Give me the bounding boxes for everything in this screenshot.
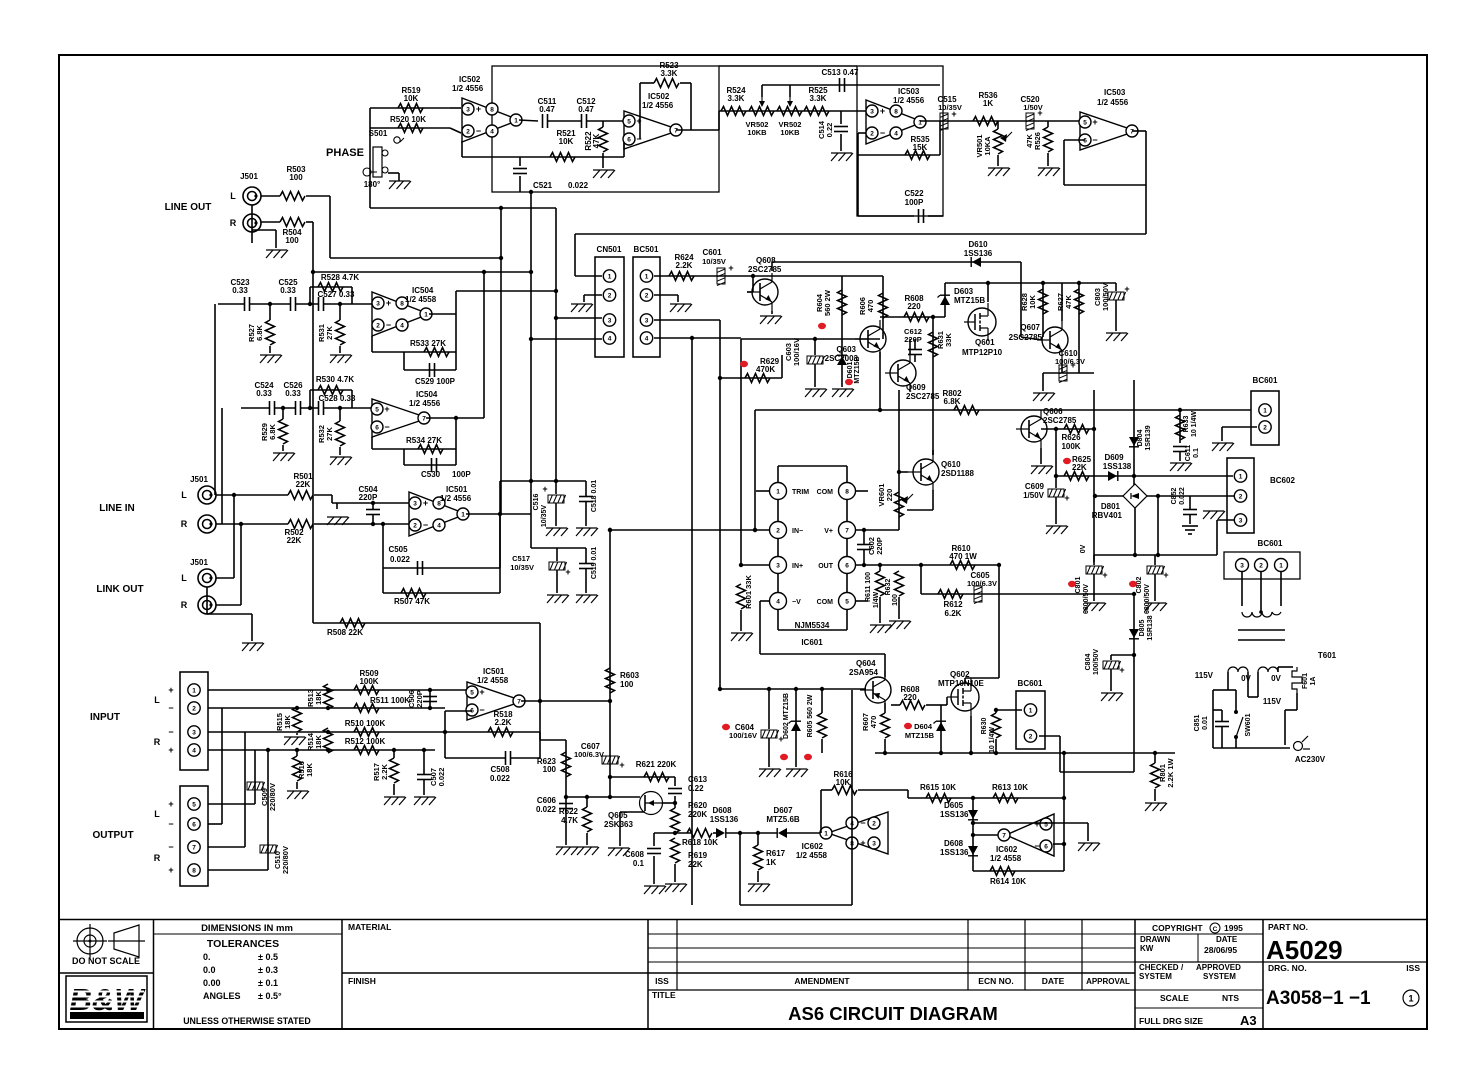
svg-text:470: 470 — [866, 300, 875, 313]
capacitor C514 — [834, 127, 848, 132]
svg-text:27K: 27K — [325, 326, 334, 340]
svg-text:IC503: IC503 — [898, 87, 920, 96]
B&W logo — [66, 976, 147, 1022]
svg-text:R603: R603 — [620, 671, 640, 680]
wire C522 row — [858, 215, 914, 217]
junction lineout R — [529, 270, 533, 274]
label IC601 — [801, 638, 823, 647]
label C522 — [904, 189, 924, 207]
wire C512 to IC502b — [587, 120, 628, 122]
wire Q602 source — [970, 716, 972, 753]
svg-text:IN+: IN+ — [792, 563, 803, 570]
wire bridge left — [1094, 495, 1123, 497]
junction R527 top — [268, 302, 272, 306]
svg-text:47K: 47K — [1064, 295, 1073, 309]
label 0V a — [1241, 674, 1251, 683]
wire Q604 emitter — [884, 654, 886, 677]
svg-text:22K: 22K — [1072, 463, 1087, 472]
label CN501 — [597, 245, 622, 254]
svg-text:220P: 220P — [875, 537, 884, 555]
junction C602 bot — [862, 563, 866, 567]
svg-text:+: + — [565, 567, 570, 577]
wire C517 down — [556, 570, 558, 593]
label C606 — [536, 796, 557, 814]
junction R617 top — [756, 831, 760, 835]
wire bypass2 right down — [351, 390, 353, 408]
wire vertical x1094 — [1093, 390, 1095, 562]
svg-text:−: − — [168, 703, 173, 713]
wire C851 top row — [1213, 709, 1222, 711]
wire sleeve to gnd — [252, 229, 276, 231]
wire R616 to x908 — [858, 789, 908, 791]
wire fb523 right — [680, 82, 691, 84]
wire pin3 row520 — [1217, 519, 1234, 521]
svg-text:± 0.5°: ± 0.5° — [258, 991, 282, 1001]
jack J501 lineout R — [243, 214, 261, 232]
wire CN501 pin2 stub — [584, 294, 602, 296]
resistor R504 — [280, 218, 305, 227]
ground R619 — [665, 884, 687, 892]
svg-text:1SS136: 1SS136 — [940, 848, 969, 857]
wire C803 v — [1115, 283, 1117, 291]
wire R605 v2 — [821, 739, 823, 753]
svg-text:5: 5 — [627, 118, 631, 125]
resistor R501 — [288, 491, 313, 500]
transistor Q604 — [860, 671, 891, 709]
op-amp IC602b — [998, 814, 1054, 856]
wire jack L to R503 — [261, 195, 280, 197]
label R510 — [345, 719, 386, 728]
resistor R612 — [938, 590, 963, 599]
resistor R523 — [654, 79, 679, 88]
wire BC501 pin3 row — [654, 319, 720, 321]
zener diode D604 — [934, 721, 947, 731]
label D603 — [954, 287, 985, 305]
wire C801 v — [1093, 555, 1095, 565]
do not scale label — [72, 956, 140, 966]
wire R531 bottom — [339, 346, 341, 353]
wire Q605 source — [620, 811, 645, 813]
wire C529 row — [404, 369, 456, 371]
label INPUT — [90, 712, 120, 723]
ground C801 — [1084, 603, 1106, 611]
svg-text:Q609: Q609 — [906, 383, 926, 392]
wire C504 bottom — [372, 515, 374, 525]
wire pin2 drop — [858, 132, 866, 134]
svg-text:0.022: 0.022 — [1179, 487, 1186, 505]
label C505 — [388, 545, 410, 564]
polarized capacitor C802 — [1147, 566, 1169, 580]
junction x540 y701 — [538, 699, 542, 703]
label C520 — [1020, 95, 1042, 112]
svg-text:AS6 CIRCUIT DIAGRAM: AS6 CIRCUIT DIAGRAM — [788, 1003, 998, 1024]
svg-text:IC501: IC501 — [483, 667, 505, 676]
svg-text:SW601: SW601 — [1245, 713, 1252, 736]
label C512 — [576, 97, 596, 114]
svg-text:D608: D608 — [944, 839, 964, 848]
svg-text:1: 1 — [1029, 707, 1033, 714]
svg-text:Q606: Q606 — [1043, 407, 1063, 416]
svg-text:R: R — [181, 600, 188, 610]
wire x540 down — [539, 623, 541, 701]
resistor R510 — [354, 728, 379, 737]
label C525 — [278, 278, 298, 295]
resistor R509 — [354, 686, 379, 695]
svg-text:R622: R622 — [559, 807, 579, 816]
svg-text:4: 4 — [776, 598, 780, 605]
junction y410 x1180 — [1178, 408, 1182, 412]
junction R514 b — [326, 748, 330, 752]
label R630 — [981, 718, 996, 754]
ground Q606 — [1031, 466, 1053, 474]
wire fb x540b — [539, 701, 541, 758]
junction fb x383 — [381, 522, 385, 526]
wire rail689 — [720, 688, 866, 690]
ground C609 — [1046, 526, 1068, 534]
svg-text:BC601: BC601 — [1018, 679, 1043, 688]
wire R611 v2 — [879, 597, 881, 623]
junction pin6 x1064 — [1062, 842, 1066, 846]
svg-text:± 0.3: ± 0.3 — [258, 965, 278, 975]
svg-text:UNLESS OTHERWISE STATED: UNLESS OTHERWISE STATED — [183, 1016, 311, 1026]
svg-text:PART NO.: PART NO. — [1268, 922, 1308, 932]
svg-text:D605: D605 — [944, 801, 964, 810]
svg-text:D805: D805 — [1139, 620, 1146, 637]
potentiometer VR502b — [777, 97, 802, 116]
connector BC601 horiz — [1224, 552, 1300, 579]
wire linein R feed up — [221, 408, 223, 524]
resistor R527 — [266, 320, 275, 345]
label C519 — [591, 547, 598, 579]
svg-text:100/6.3V: 100/6.3V — [967, 579, 997, 588]
svg-text:C609: C609 — [1025, 482, 1045, 491]
junction Q610 base — [897, 470, 901, 474]
svg-text:± 0.1: ± 0.1 — [258, 978, 278, 988]
wire x566 down — [565, 740, 567, 845]
polarized capacitor C607 — [602, 756, 625, 770]
junction rail689 x769 — [767, 687, 771, 691]
label IC503b — [1097, 88, 1129, 107]
svg-text:220P: 220P — [904, 335, 922, 344]
ground IC602b — [1078, 843, 1100, 851]
wire C804 v — [1110, 655, 1112, 660]
transistor Q603 — [855, 320, 886, 358]
svg-text:10 1/4W: 10 1/4W — [989, 727, 996, 753]
do not scale target symbol — [73, 924, 107, 958]
wire filter1 seg d — [324, 303, 374, 305]
svg-text:22K: 22K — [296, 480, 311, 489]
svg-text:R612: R612 — [943, 600, 963, 609]
capacitor C505 — [418, 561, 423, 575]
svg-text:D603: D603 — [954, 287, 974, 296]
label Q601 — [962, 338, 1003, 357]
label R513 — [306, 689, 323, 707]
wire C851 v1 — [1221, 710, 1223, 721]
svg-text:1/2 4556: 1/2 4556 — [1097, 98, 1129, 107]
label R627 — [1056, 293, 1073, 311]
red mark D604 — [904, 723, 912, 729]
wire gate row — [566, 796, 640, 798]
label R531 — [317, 324, 334, 342]
svg-text:2SC2785: 2SC2785 — [1043, 416, 1077, 425]
label IC504b — [409, 390, 441, 408]
wire pin7 row — [855, 529, 899, 531]
label C521 — [533, 181, 589, 190]
svg-text:C518 0.01: C518 0.01 — [591, 480, 598, 512]
wire C516 down — [555, 503, 557, 526]
label R520 — [390, 115, 426, 124]
wire prim B left — [1257, 672, 1259, 697]
wire fb x383 down — [382, 524, 384, 593]
svg-text:1/4W: 1/4W — [873, 591, 880, 608]
wire fb533 left — [371, 336, 373, 352]
ground R532 — [330, 457, 352, 465]
resistor R514 — [324, 728, 333, 753]
wire D608-D607 — [726, 832, 777, 834]
wire x1180 seg — [1179, 410, 1181, 443]
wire C514 stub — [840, 111, 842, 124]
svg-text:3: 3 — [776, 562, 780, 569]
svg-text:1: 1 — [824, 830, 828, 837]
junction R516 top — [295, 748, 299, 752]
label C530 — [421, 470, 471, 479]
switch SW601 — [1234, 710, 1243, 739]
junction bypass2 left — [308, 406, 312, 410]
ground D601 — [832, 389, 854, 397]
svg-text:D610: D610 — [968, 240, 988, 249]
resistor R518 — [488, 728, 513, 737]
svg-text:100P: 100P — [905, 198, 924, 207]
svg-text:−: − — [1092, 135, 1097, 145]
wire lineout L bus — [330, 257, 501, 259]
label R613 — [992, 783, 1028, 792]
resistor R520 — [398, 124, 423, 133]
capacitor C523 — [245, 297, 250, 311]
label R502 — [284, 528, 304, 545]
svg-text:0.022: 0.022 — [390, 555, 411, 564]
junction y753 x1064 — [1062, 751, 1066, 755]
diode D609 — [1108, 471, 1118, 481]
wire R604 v — [841, 276, 843, 339]
resistor R511 — [354, 704, 379, 713]
wire linkout L up — [233, 495, 235, 578]
wire x1064 mid — [1063, 798, 1065, 844]
ground C604 — [759, 769, 781, 777]
wire pin8 row — [208, 869, 268, 871]
svg-text:LINK OUT: LINK OUT — [96, 584, 143, 595]
junction x531 y192 — [529, 190, 533, 194]
junction R529 top — [281, 406, 285, 410]
label R525 — [808, 86, 828, 103]
svg-text:3: 3 — [1239, 517, 1243, 524]
red mark D601 — [845, 379, 853, 385]
svg-text:LINE OUT: LINE OUT — [165, 202, 212, 213]
fuse F601 — [1292, 667, 1302, 693]
svg-text:+: + — [168, 865, 173, 875]
label Q608 — [748, 256, 782, 274]
junction C510 top — [266, 748, 270, 752]
label R631 — [936, 331, 953, 349]
svg-text:4: 4 — [608, 335, 612, 342]
junction D605 top — [971, 796, 975, 800]
resistor R604 — [838, 290, 847, 315]
wire Q602 gate link h — [941, 704, 947, 706]
ground C852 bars — [1182, 526, 1198, 534]
label R629 — [756, 357, 780, 374]
svg-text:10KB: 10KB — [747, 128, 767, 137]
svg-text:8: 8 — [400, 300, 404, 307]
wire fb523 left down — [639, 83, 641, 139]
svg-text:220P: 220P — [359, 493, 378, 502]
svg-text:6: 6 — [1044, 843, 1048, 850]
wire R527 bottom — [269, 346, 271, 353]
wire pin7 row — [208, 846, 245, 848]
label 180deg — [364, 180, 381, 189]
resistor R606 — [879, 293, 888, 318]
label R608 — [904, 294, 924, 311]
wire D607 out — [787, 832, 820, 834]
wire C519 v1 — [585, 548, 587, 563]
svg-text:0.47: 0.47 — [578, 105, 594, 114]
svg-text:220/80V: 220/80V — [268, 783, 277, 811]
wire C608 v — [653, 833, 655, 846]
resistor R627 — [1075, 289, 1084, 314]
wire bus y291 — [456, 290, 556, 292]
label R612 — [943, 600, 963, 618]
junction x610 y530 — [608, 528, 612, 532]
svg-text:C508: C508 — [490, 765, 510, 774]
resistor R801 — [1151, 763, 1160, 788]
junction x1134 y655 — [1132, 653, 1136, 657]
svg-text:C606: C606 — [537, 796, 557, 805]
wire filter2 seg b — [275, 407, 295, 409]
svg-text:DRG. NO.: DRG. NO. — [1268, 963, 1307, 973]
wire C504 gnd stub — [336, 503, 338, 509]
svg-text:0.33: 0.33 — [285, 389, 301, 398]
diode D608 — [716, 828, 726, 838]
svg-text:R: R — [181, 519, 188, 529]
wire pin5 row — [208, 803, 255, 805]
junction R514 a — [326, 730, 330, 734]
wire R612 drop — [920, 565, 922, 594]
polarized capacitor C516 — [542, 484, 565, 503]
svg-text:DRAWN: DRAWN — [1140, 935, 1170, 944]
svg-text:PHASE: PHASE — [326, 147, 364, 159]
wire R532 bottom — [339, 447, 341, 455]
wire pin2 row — [610, 529, 769, 531]
svg-text:1/50V: 1/50V — [1023, 103, 1043, 112]
polarized capacitor C604 — [761, 730, 784, 744]
wire vertical x755 — [754, 410, 756, 530]
svg-text:220: 220 — [903, 693, 917, 702]
capacitor C524 — [270, 401, 275, 415]
mosfet Q602 — [947, 678, 979, 716]
resistor R521 — [550, 153, 575, 162]
jack J501 linein R — [198, 515, 216, 533]
svg-text:220: 220 — [907, 302, 921, 311]
wire x311 down — [312, 272, 314, 623]
svg-text:0.1: 0.1 — [633, 859, 645, 868]
label R516 — [297, 761, 314, 779]
svg-text:18K: 18K — [283, 715, 292, 729]
svg-text:C601: C601 — [702, 248, 722, 257]
wire IC504b out — [426, 417, 484, 419]
transformer core — [1238, 630, 1285, 640]
wire Q605 drain row — [662, 802, 675, 804]
label C504 — [358, 485, 378, 502]
svg-text:−: − — [860, 818, 865, 828]
connector BC602 — [1227, 458, 1254, 533]
svg-text:C528 0.33: C528 0.33 — [319, 394, 356, 403]
svg-text:180°: 180° — [364, 180, 381, 189]
label C605 — [967, 571, 997, 588]
label VR601 — [877, 484, 894, 507]
wire C611 down — [1179, 452, 1181, 461]
resistor R611 — [876, 571, 885, 596]
label R521 — [556, 129, 576, 146]
junction bypass1 left — [308, 302, 312, 306]
svg-text:10/35V: 10/35V — [541, 505, 548, 528]
svg-text:BC601: BC601 — [1253, 376, 1278, 385]
svg-text:IC504: IC504 — [412, 286, 434, 295]
label BC601 low — [1018, 679, 1043, 688]
ground C610 — [1033, 393, 1055, 401]
svg-text:AMENDMENT: AMENDMENT — [794, 976, 850, 986]
junction x501 y208 — [499, 206, 503, 210]
wire sec pin2 drop — [1260, 572, 1262, 612]
svg-text:C852: C852 — [1171, 488, 1178, 505]
op-amp IC502b — [623, 111, 682, 149]
resistor R618 — [687, 829, 712, 838]
svg-text:0.1: 0.1 — [1193, 448, 1200, 458]
wire pin6 out row — [855, 564, 999, 566]
wire R801 v1 — [1154, 753, 1156, 763]
label J501 lineout — [240, 172, 258, 181]
wire C530 left — [403, 449, 405, 465]
label Q603 — [825, 345, 859, 363]
jfet Q605 — [640, 792, 663, 815]
ground D602 — [786, 769, 808, 777]
svg-text:D608: D608 — [712, 806, 732, 815]
svg-text:−: − — [476, 126, 481, 136]
label R508 — [327, 628, 363, 637]
op-amp IC501b — [466, 682, 525, 720]
resistor R609 — [900, 701, 925, 710]
svg-text:DATE: DATE — [1042, 976, 1065, 986]
svg-text:18K: 18K — [305, 763, 314, 777]
wire gnd drop ic602b — [1087, 823, 1089, 841]
svg-text:2.2K: 2.2K — [380, 763, 389, 779]
svg-text:R626: R626 — [1061, 433, 1081, 442]
op-amp IC501a — [409, 492, 469, 536]
wire R519 row — [370, 107, 450, 109]
wire pin7 stub — [973, 834, 998, 836]
ground BC601r — [1212, 443, 1234, 451]
svg-text:MTZ15B: MTZ15B — [905, 731, 935, 740]
svg-text:MTP12P10: MTP12P10 — [962, 348, 1003, 357]
transformer primary coil A — [1228, 667, 1248, 672]
wire R618 out — [713, 832, 716, 834]
wire C522 row2 — [928, 215, 943, 217]
wire fb right up — [623, 139, 625, 157]
label C801 — [1075, 577, 1090, 614]
svg-text:1: 1 — [608, 273, 612, 280]
wire C603 down — [814, 364, 816, 387]
svg-text:APPROVED: APPROVED — [1196, 963, 1241, 972]
junction Q608 base — [751, 274, 755, 278]
wire VR501 bottom — [997, 155, 999, 166]
label C511 — [538, 97, 557, 114]
